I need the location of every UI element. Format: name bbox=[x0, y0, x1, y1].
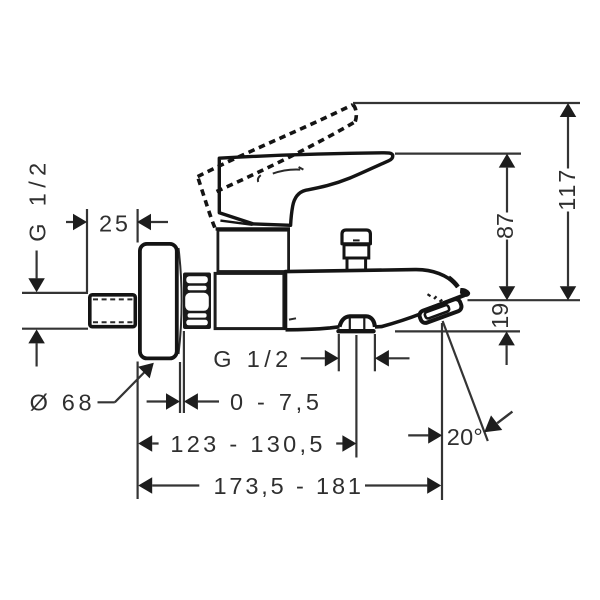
escutcheon bbox=[140, 244, 182, 359]
union nut bbox=[183, 273, 211, 330]
extension line outlet left bbox=[338, 334, 340, 371]
handle wedge line bbox=[220, 221, 252, 225]
svg-text:87: 87 bbox=[492, 213, 518, 239]
extension line wall plane bbox=[137, 209, 139, 499]
dimension 87 bbox=[492, 154, 518, 301]
reference line lever tip level bbox=[395, 153, 521, 155]
svg-text:123 - 130,5: 123 - 130,5 bbox=[170, 431, 322, 457]
dimension 173,5 - 181 bbox=[138, 473, 441, 499]
reference line aerator level bbox=[395, 330, 520, 332]
wall pipe lines bbox=[22, 293, 88, 329]
tip detail marks bbox=[428, 294, 443, 302]
svg-text:117: 117 bbox=[554, 170, 580, 211]
svg-text:19: 19 bbox=[487, 303, 513, 329]
svg-text:173,5 - 181: 173,5 - 181 bbox=[214, 473, 362, 499]
svg-text:G 1/2: G 1/2 bbox=[25, 163, 51, 242]
dimension diameter 68 bbox=[30, 357, 160, 416]
handle raised dashed bbox=[198, 105, 357, 228]
extension line escutcheon edge bbox=[179, 362, 181, 413]
extension line pipe end bbox=[86, 209, 88, 292]
svg-text:G 1/2: G 1/2 bbox=[213, 346, 288, 372]
spout tip bbox=[460, 288, 470, 297]
reference line handle-up tip level bbox=[353, 102, 580, 104]
dimension G 1/2 outlet bbox=[213, 346, 409, 372]
dimension 117 bbox=[554, 103, 580, 300]
extension line body edge bbox=[183, 331, 185, 413]
diverter knob bbox=[342, 230, 370, 271]
dimension 20 degrees bbox=[408, 412, 512, 450]
extension line outlet centre bbox=[355, 335, 357, 458]
valve body upper housing bbox=[216, 229, 290, 272]
extension line aerator axis bbox=[441, 323, 443, 500]
handle surface marks bbox=[258, 167, 304, 182]
dimension G 1/2 supply bbox=[25, 163, 51, 367]
body tick bbox=[289, 318, 296, 319]
extension line outlet right bbox=[374, 334, 376, 371]
spout underside over aerator bbox=[427, 295, 465, 310]
aerator bbox=[418, 288, 470, 324]
pipe nipple G 1/2 bbox=[90, 295, 136, 327]
dimension 19 bbox=[487, 303, 515, 365]
svg-text:20°: 20° bbox=[447, 424, 483, 450]
spout bbox=[286, 270, 470, 330]
dimension 0 - 7,5 bbox=[147, 389, 319, 415]
reference line spout tip level bbox=[468, 299, 581, 301]
valve body bbox=[215, 273, 284, 328]
dimension 123 - 130,5 bbox=[138, 431, 356, 457]
shower outlet G 1/2 bbox=[339, 318, 374, 331]
dimension 25 bbox=[66, 210, 168, 236]
handle bbox=[219, 153, 392, 226]
wire 20 degree axis bbox=[443, 321, 488, 441]
